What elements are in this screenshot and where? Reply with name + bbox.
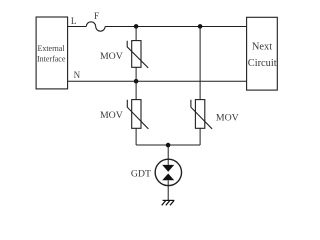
varistor MOV3: [191, 100, 239, 129]
wire MOV2 bottom lead: [135, 128, 137, 145]
svg-text:MOV: MOV: [100, 110, 123, 121]
wire bottom bus: [136, 144, 200, 146]
wire N line: box to Next Circuit box: [68, 80, 247, 82]
wire MOV1 bottom lead: [135, 67, 137, 81]
svg-text:External: External: [37, 44, 65, 53]
ground: [162, 200, 175, 205]
external interface box: [36, 17, 68, 89]
gas discharge tube GDT: [131, 159, 182, 185]
wire MOV2 top lead: [135, 81, 137, 100]
next circuit box: [247, 17, 278, 90]
svg-text:MOV: MOV: [216, 112, 239, 123]
fuse F: [86, 11, 105, 31]
svg-text:F: F: [94, 11, 99, 21]
svg-text:N: N: [74, 70, 81, 80]
wire L line: box to fuse: [68, 26, 87, 28]
node junction dot L-MOV1: [134, 24, 139, 29]
svg-text:MOV: MOV: [100, 51, 123, 62]
svg-text:L: L: [71, 16, 77, 26]
node junction dot N-MOV1-MOV2: [134, 79, 139, 84]
wire GDT bottom lead: [167, 180, 169, 200]
node junction dot GDT bus: [166, 143, 171, 148]
svg-text:Interface: Interface: [37, 55, 66, 64]
wire L line: fuse to Next Circuit box: [105, 26, 247, 28]
wire MOV1 top lead: [135, 27, 137, 41]
wire MOV3 branch from L: [199, 27, 201, 100]
varistor MOV2: [100, 100, 148, 129]
svg-text:GDT: GDT: [131, 169, 151, 180]
wire GDT top lead: [167, 145, 169, 165]
varistor MOV1: [100, 41, 148, 68]
node junction dot L-MOV3: [198, 24, 203, 29]
svg-text:Next: Next: [252, 42, 272, 53]
svg-text:Circuit: Circuit: [248, 58, 277, 69]
wire MOV3 bottom lead: [199, 128, 201, 145]
